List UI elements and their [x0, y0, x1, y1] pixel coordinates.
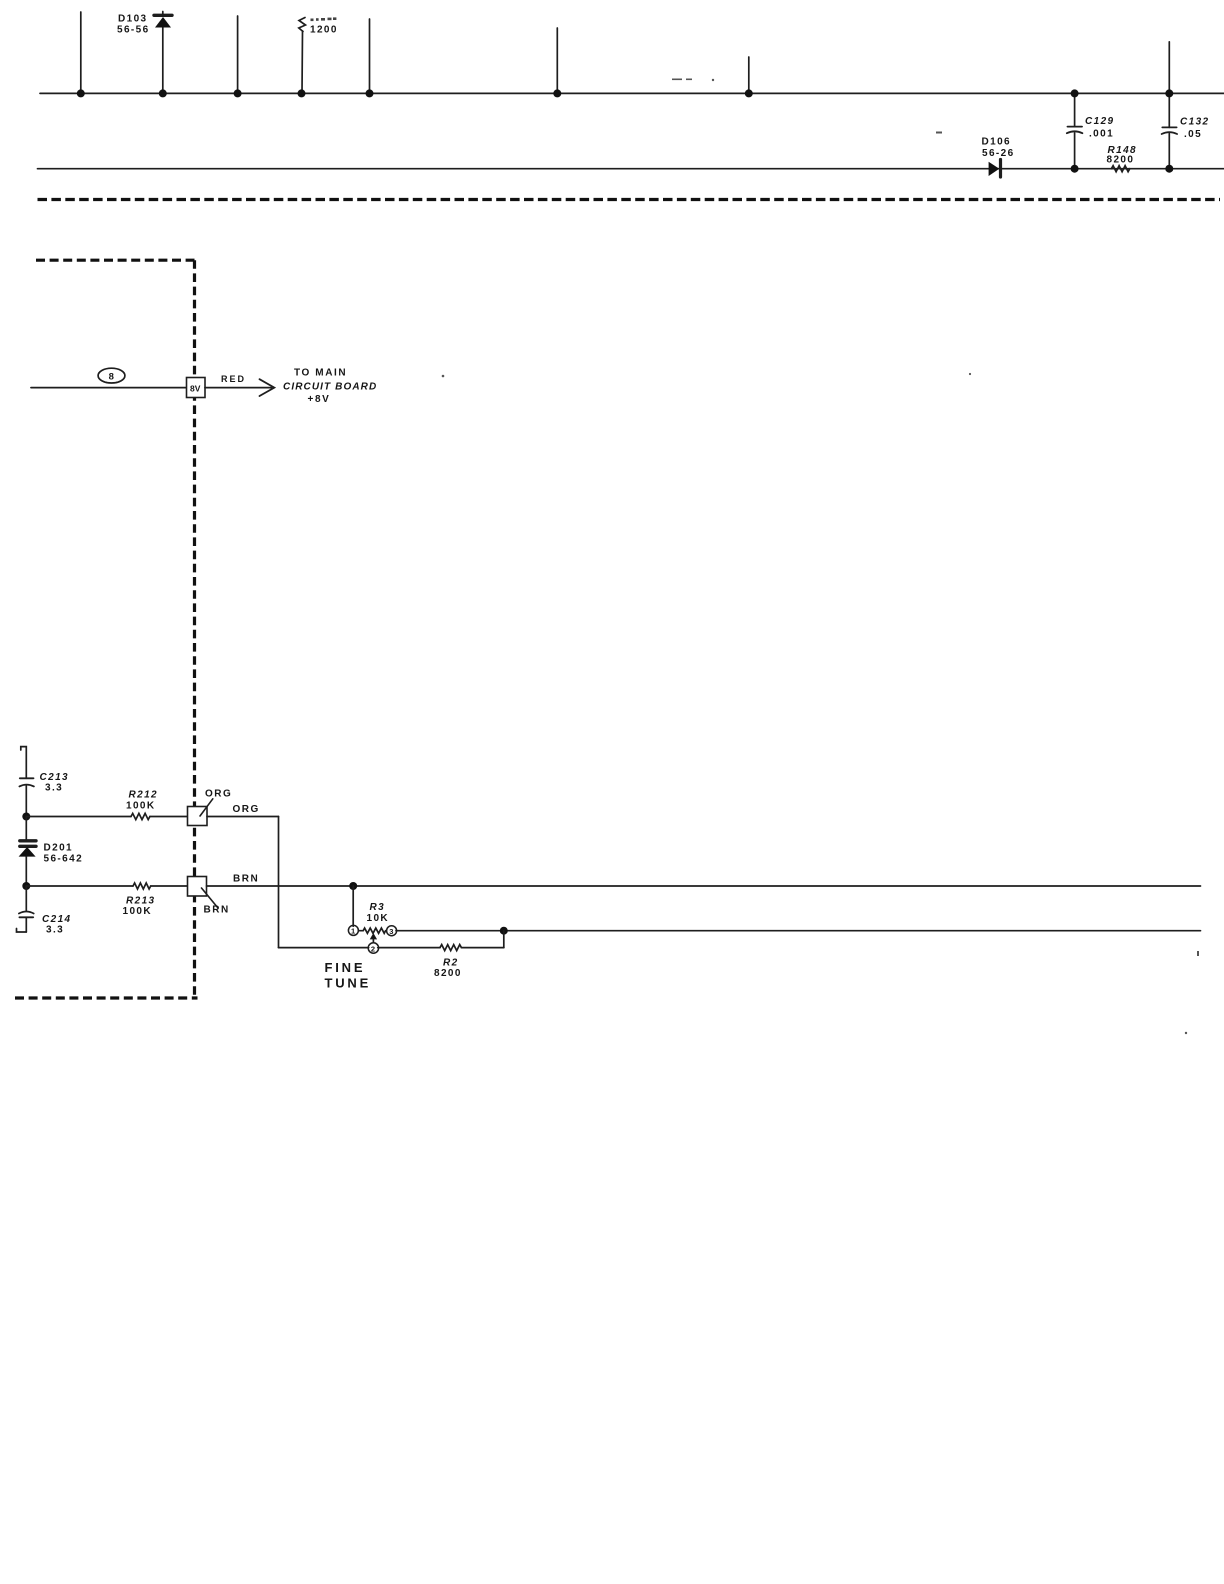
wire C213 top lead hook	[21, 747, 27, 779]
node junction dot D103	[159, 89, 167, 97]
label C129 .001	[1085, 116, 1115, 140]
resistor R2	[378, 945, 504, 951]
svg-text:8: 8	[109, 372, 114, 383]
wire BRN to pot pin1	[352, 886, 354, 926]
svg-text:.05: .05	[1184, 129, 1202, 140]
svg-text:R3: R3	[370, 902, 386, 913]
node 8	[98, 368, 125, 383]
wire pot pin3 right	[396, 930, 1201, 932]
label R148 8200	[1107, 145, 1138, 166]
node junction dot R2 to pin3 net	[500, 927, 508, 935]
resistor R213	[26, 883, 187, 889]
svg-text:CIRCUIT BOARD: CIRCUIT BOARD	[283, 382, 377, 393]
label FINE TUNE	[325, 960, 372, 991]
potentiometer R3 pin 1	[348, 925, 358, 935]
label C132 .05	[1180, 117, 1210, 141]
capacitor C129	[1067, 93, 1083, 168]
label C214 3.3	[42, 914, 72, 936]
resistor R212	[26, 813, 187, 819]
label C213 3.3	[40, 772, 70, 794]
svg-text:3: 3	[389, 927, 393, 936]
potentiometer R3 wiper pin 2	[368, 934, 378, 954]
svg-text:D103: D103	[118, 14, 148, 25]
svg-text:D106: D106	[982, 137, 1012, 148]
svg-text:C213: C213	[40, 772, 70, 783]
capacitor C214	[19, 886, 34, 932]
svg-text:ORG: ORG	[205, 789, 232, 800]
svg-text:R2: R2	[443, 958, 459, 969]
dashed tuner box right edge	[193, 260, 196, 998]
label TO MAIN CIRCUIT BOARD +8V	[283, 368, 377, 406]
svg-text:.001: .001	[1089, 129, 1114, 140]
svg-text:1200: 1200	[310, 25, 338, 36]
svg-text:C214: C214	[42, 914, 72, 925]
svg-text:100K: 100K	[123, 906, 153, 917]
dashed section separator	[38, 198, 1221, 201]
wire ORG net down	[278, 817, 280, 948]
dashed tuner box top edge	[36, 259, 195, 262]
node junction dot 3	[298, 89, 306, 97]
wire R2 up to pin3 net	[503, 931, 505, 948]
node junction dot 6	[745, 89, 753, 97]
connector 8V	[187, 378, 206, 398]
node junction dot BRN to pot	[349, 882, 357, 890]
svg-text:56-56: 56-56	[117, 25, 150, 36]
wire stub 4	[369, 19, 371, 93]
label R212 100K	[126, 790, 158, 812]
svg-text:BRN: BRN	[204, 905, 230, 916]
wire stub 1	[80, 12, 82, 93]
svg-text:R213: R213	[126, 896, 156, 907]
capacitor C213	[19, 778, 34, 816]
wire lower AGC line	[38, 168, 1224, 170]
label D103 56-56	[117, 14, 150, 36]
label R3 10K	[367, 902, 390, 924]
label R213 100K	[123, 896, 156, 918]
capacitor C132	[1162, 42, 1178, 169]
potentiometer R3 pin 3	[387, 926, 397, 936]
wire pin8	[31, 387, 187, 389]
wire stub 2	[237, 16, 239, 93]
wire ORG net right	[207, 816, 279, 818]
svg-text:3.3: 3.3	[45, 783, 63, 794]
wire BRN net right	[207, 885, 1201, 887]
wire stub 6	[748, 57, 750, 93]
resistor R148	[1111, 166, 1129, 172]
svg-text:100K: 100K	[126, 801, 156, 812]
svg-text:FINE: FINE	[325, 960, 366, 975]
svg-text:8200: 8200	[434, 968, 462, 979]
label D106 56-26	[982, 137, 1015, 160]
wire top bus	[40, 92, 1224, 94]
node junction dot C129 top	[1071, 89, 1079, 97]
svg-text:ORG: ORG	[233, 804, 260, 815]
node junction dot 4	[366, 89, 374, 97]
wire wiper net left segment	[279, 947, 369, 949]
svg-text:BRN: BRN	[233, 874, 259, 885]
label R2 8200	[434, 958, 462, 980]
svg-text:8V: 8V	[190, 384, 201, 394]
svg-text:56-642: 56-642	[44, 854, 84, 865]
node junction dot C129 bottom	[1071, 165, 1079, 173]
node junction dot 2	[234, 89, 242, 97]
dashed tuner box bottom edge	[15, 996, 198, 999]
node junction dot BRN net	[22, 882, 30, 890]
svg-text:2: 2	[371, 944, 375, 953]
svg-text:+8V: +8V	[308, 394, 331, 405]
connector BRN box	[188, 877, 219, 909]
svg-text:D201: D201	[44, 843, 74, 854]
wire C214 bottom lead hook	[17, 929, 27, 933]
svg-text:TO MAIN: TO MAIN	[294, 368, 347, 379]
node junction dot 1	[77, 89, 85, 97]
svg-text:TUNE: TUNE	[325, 976, 372, 991]
resistor (partial) 1200	[299, 18, 306, 94]
svg-text:1: 1	[351, 927, 355, 936]
wire RED arrow to main board	[205, 379, 274, 396]
svg-text:8200: 8200	[1107, 155, 1135, 166]
svg-text:R212: R212	[129, 790, 159, 801]
potentiometer R3 element	[358, 928, 385, 933]
scan speck marks	[442, 79, 1199, 1035]
diode D103	[154, 12, 172, 94]
label D201 56-642	[44, 843, 84, 865]
label 1200	[310, 17, 338, 35]
svg-text:C129: C129	[1085, 116, 1115, 127]
node junction dot 5	[553, 89, 561, 97]
node junction dot ORG net	[22, 813, 30, 821]
svg-text:C132: C132	[1180, 117, 1210, 128]
svg-text:RED: RED	[221, 374, 246, 384]
diode D106	[989, 160, 1001, 178]
diode D201 (varactor)	[19, 817, 36, 887]
node junction dot C132 bottom	[1165, 165, 1173, 173]
svg-text:56-26: 56-26	[982, 148, 1015, 159]
connector ORG box	[188, 799, 213, 826]
wire stub 5	[556, 28, 558, 93]
svg-text:3.3: 3.3	[46, 925, 64, 936]
node junction dot C132 top	[1165, 89, 1173, 97]
svg-text:10K: 10K	[367, 913, 390, 924]
